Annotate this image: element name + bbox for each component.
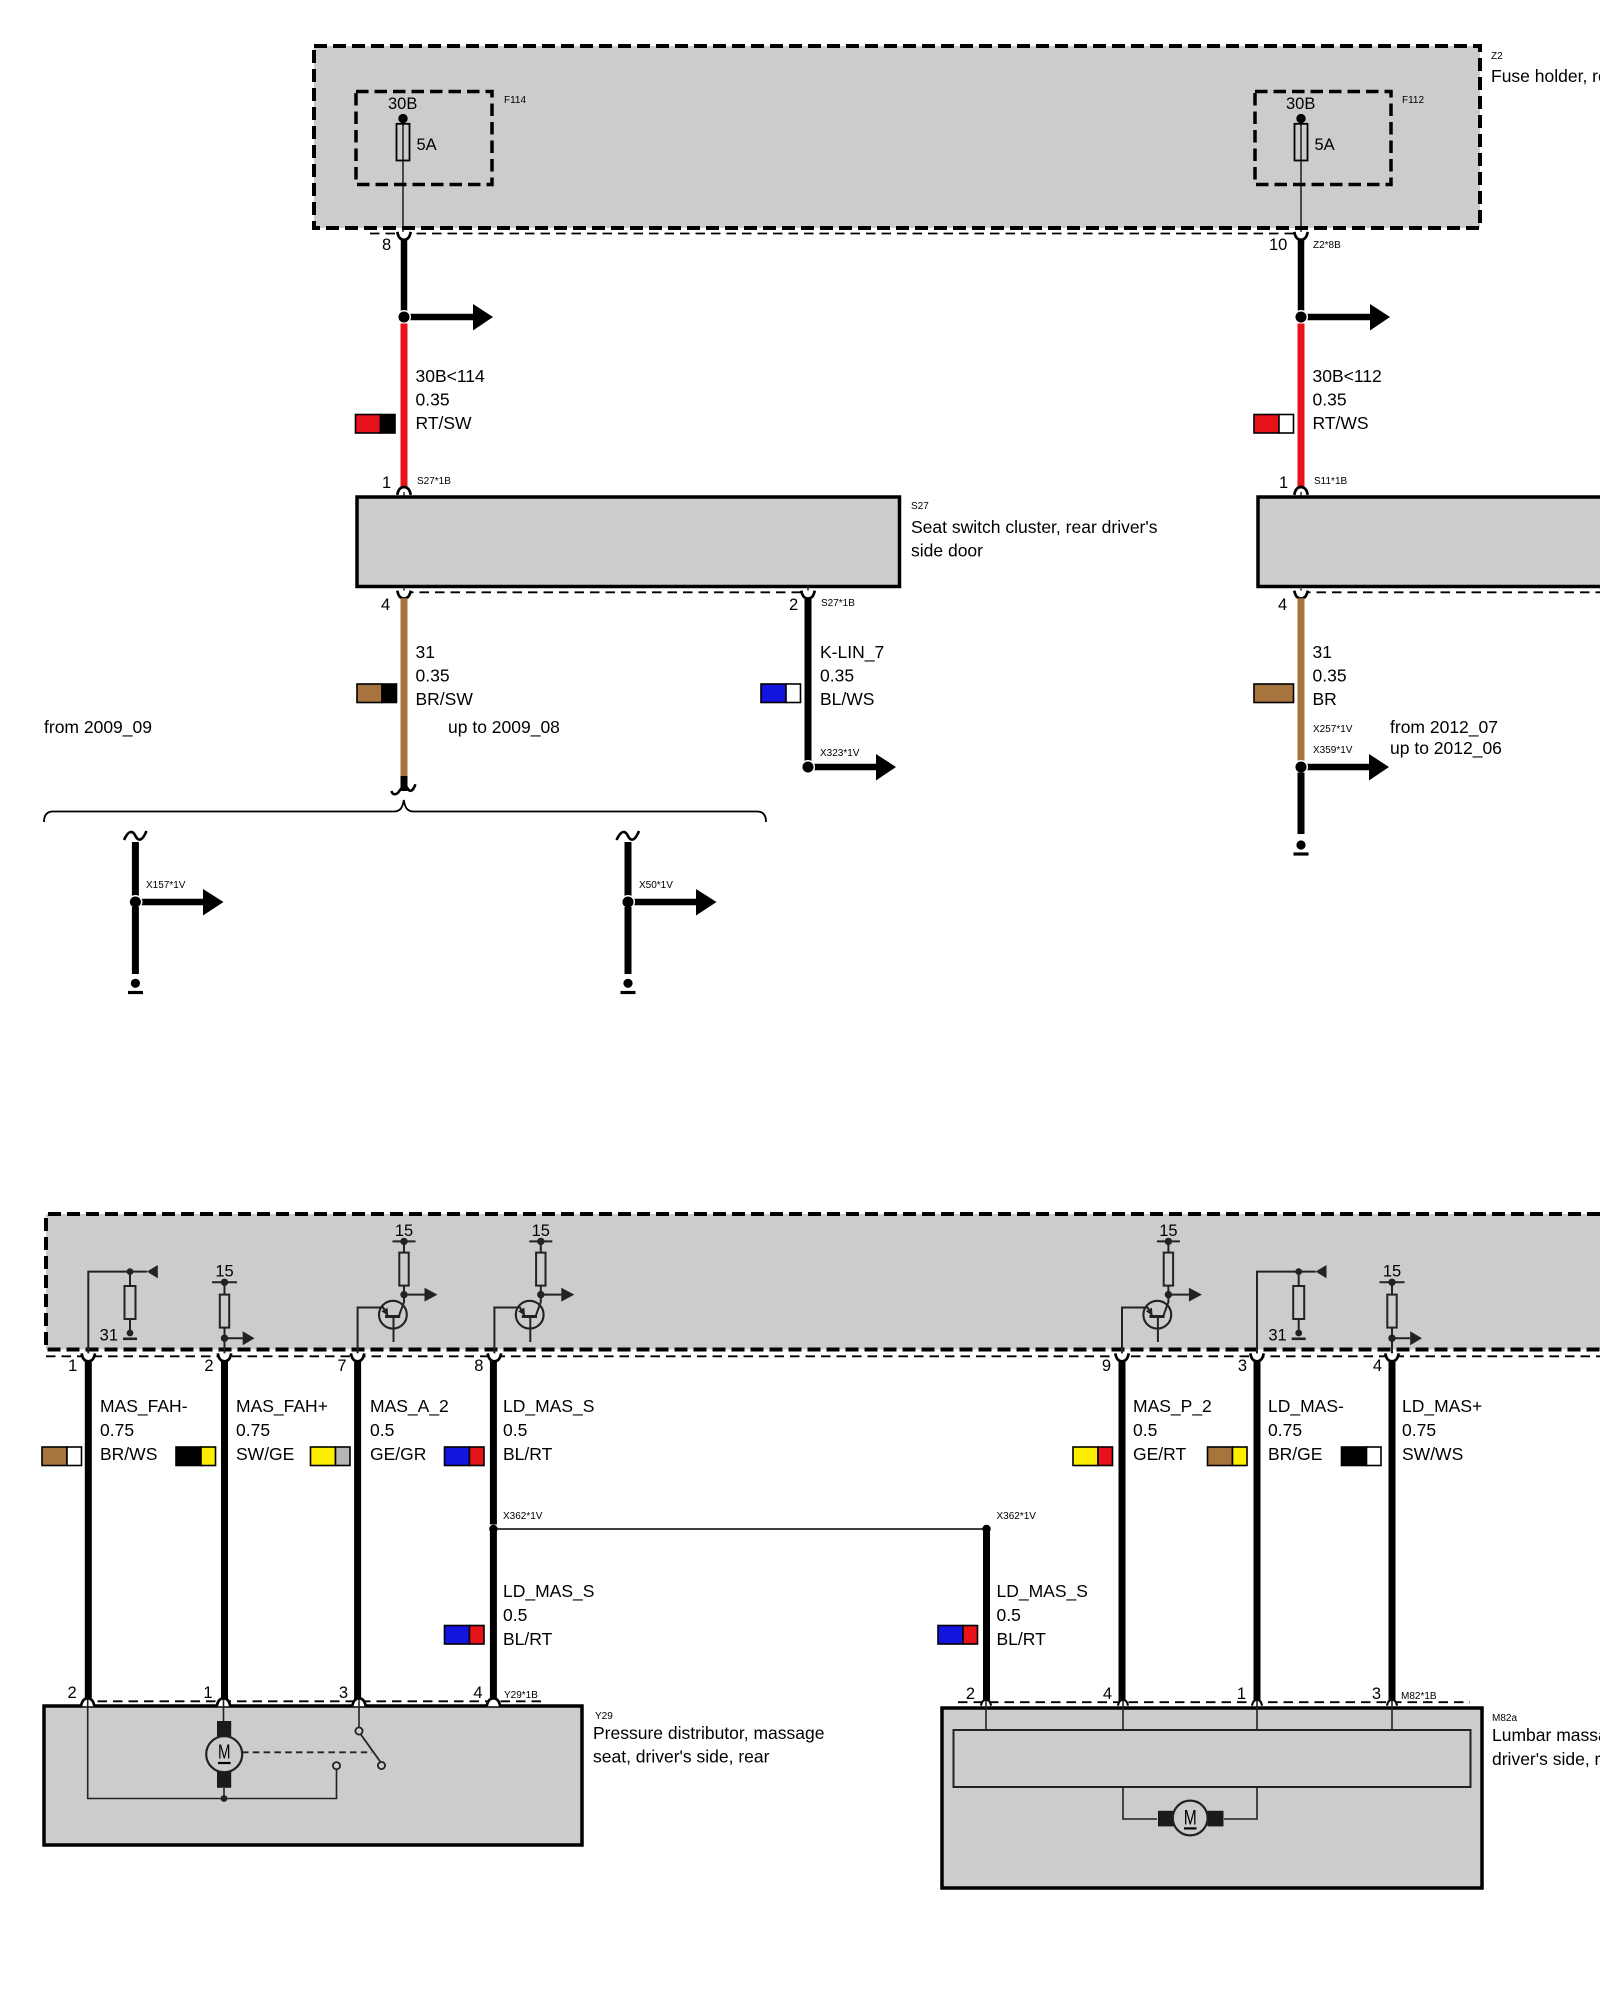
node X50*1V with arrow: [622, 880, 717, 916]
svg-text:8: 8: [382, 236, 391, 254]
fuse F114: [388, 95, 437, 234]
node junction pin10 with arrow: [1295, 304, 1390, 331]
seat switch cluster S27 box: [357, 497, 1158, 587]
Z2 connector strip dashed line: [370, 233, 1301, 235]
branch X50 squiggle: [617, 831, 640, 840]
ground right: [1294, 840, 1309, 854]
svg-text:2: 2: [966, 1685, 975, 1703]
svg-text:X323*1V: X323*1V: [820, 748, 860, 759]
wire K-LIN_7: [805, 598, 812, 762]
swatch BL/WS: [761, 684, 801, 703]
swatch RT/WS: [1254, 415, 1294, 434]
swatch BL/RT upper: [445, 1447, 485, 1466]
wire X362 link: [493, 1528, 986, 1530]
svg-text:Y29*1B: Y29*1B: [504, 1690, 538, 1701]
wire MAS_FAH+: [221, 1361, 228, 1700]
svg-text:X359*1V: X359*1V: [1313, 745, 1353, 756]
pin 4 connector M82a: [1103, 1685, 1128, 1706]
svg-text:M: M: [1184, 1807, 1197, 1830]
wire 31 brown BR/SW: [401, 598, 408, 791]
Y29 wire pin3 to switch: [358, 1700, 360, 1728]
wire branch X50 upper: [625, 842, 632, 897]
fuse F112: [1286, 95, 1335, 234]
switch lever Y29: [361, 1734, 386, 1769]
svg-text:31: 31: [1268, 1327, 1286, 1345]
pin 1 connector module: [68, 1353, 95, 1375]
M82a wire to motor left: [1123, 1787, 1157, 1819]
M82a inner block: [954, 1730, 1471, 1787]
pin 4 connector Y29: [473, 1684, 538, 1706]
pin 1 connector Y29: [203, 1684, 230, 1706]
wire MAS_P_2: [1119, 1361, 1126, 1701]
pin 8 connector Z2*8B: [382, 232, 411, 254]
pin 4 connector S27: [381, 586, 411, 614]
M82a pin lead 3: [1391, 1701, 1393, 1730]
svg-text:Z2*8B: Z2*8B: [1313, 240, 1341, 251]
swatch BR/WS: [42, 1447, 82, 1466]
node X323*1V with arrow: [802, 748, 896, 781]
swatch BR/SW: [357, 684, 397, 703]
svg-text:S27: S27: [911, 501, 929, 512]
svg-text:Z2: Z2: [1491, 51, 1503, 62]
node junction pin8 with arrow: [398, 304, 493, 331]
wire 31 brown BR right: [1298, 598, 1305, 762]
svg-text:2: 2: [68, 1684, 77, 1702]
swatch SW/WS: [1342, 1447, 1382, 1466]
M82a wire to motor right: [1224, 1787, 1257, 1819]
pin 8 connector module: [474, 1353, 501, 1375]
svg-text:15: 15: [1159, 1222, 1177, 1240]
wire LD_MAS_S lower right: [983, 1529, 990, 1701]
pin 2 connector module: [204, 1353, 231, 1375]
svg-text:4: 4: [473, 1684, 482, 1702]
svg-text:15: 15: [395, 1222, 413, 1240]
svg-text:30B: 30B: [1286, 95, 1315, 113]
pin 7 connector module: [337, 1353, 364, 1375]
node X157*1V with arrow: [129, 880, 223, 916]
svg-text:F112: F112: [1402, 95, 1424, 106]
fuse F112 box: [1255, 92, 1424, 185]
transistor at pin 8: [494, 1222, 574, 1358]
svg-text:2: 2: [204, 1357, 213, 1375]
module connector strip dashed line: [46, 1355, 1600, 1357]
M82a pin lead 4: [1122, 1701, 1124, 1730]
Y29 connector strip dashed line: [82, 1700, 541, 1702]
svg-text:4: 4: [1278, 596, 1287, 614]
node X362*1V left: [489, 1511, 543, 1533]
wire below X359: [1298, 773, 1305, 835]
M82a connector strip dashed line: [958, 1701, 1470, 1703]
swatch BR: [1254, 684, 1294, 703]
svg-text:3: 3: [1372, 1685, 1381, 1703]
pin 4 connector S11: [1278, 586, 1308, 614]
svg-text:X257*1V: X257*1V: [1313, 724, 1353, 735]
Y29 wire pin1 to motor: [223, 1700, 225, 1723]
resistor from 15 with arrow at pin 4: [1380, 1263, 1423, 1358]
pin 2 connector Y29: [68, 1684, 95, 1706]
node X362*1V right: [982, 1511, 1036, 1533]
resistor to ground 31 at pin 3: [1257, 1265, 1327, 1358]
swatch BR/GE: [1208, 1447, 1248, 1466]
wire break squiggle: [392, 784, 416, 794]
pin 2 connector M82a: [966, 1685, 991, 1706]
pin 10 connector Z2*8B right: [1269, 232, 1341, 254]
pin 3 connector M82a: [1372, 1685, 1437, 1706]
pin 9 connector module: [1102, 1353, 1129, 1375]
svg-text:F114: F114: [504, 95, 526, 106]
motor M M82a: [1158, 1801, 1224, 1836]
svg-text:S27*1B: S27*1B: [417, 476, 451, 487]
wire LD_MAS+: [1389, 1361, 1396, 1701]
svg-text:7: 7: [337, 1357, 346, 1375]
swatch GE/RT: [1073, 1447, 1113, 1466]
lumbar massage motor M82a box: [942, 1708, 1600, 1888]
wire 30B<112 red: [1298, 324, 1305, 488]
M82a pin lead 2: [985, 1701, 987, 1730]
wire LD_MAS_S lower left: [490, 1529, 497, 1700]
svg-text:30B: 30B: [388, 95, 417, 113]
transistor at pin 7: [358, 1222, 438, 1358]
svg-text:M82*1B: M82*1B: [1401, 1691, 1437, 1702]
svg-text:X157*1V: X157*1V: [146, 880, 186, 891]
switch contact a Y29: [333, 1762, 340, 1769]
wire pin10 to junction: [1298, 240, 1305, 313]
control module box: [46, 1214, 1600, 1350]
pin 3 connector module: [1238, 1353, 1264, 1375]
svg-text:15: 15: [215, 1263, 233, 1281]
svg-text:4: 4: [1103, 1685, 1112, 1703]
swatch RT/SW: [356, 415, 396, 434]
svg-text:3: 3: [1238, 1357, 1247, 1375]
svg-text:1: 1: [68, 1357, 77, 1375]
svg-text:8: 8: [474, 1357, 483, 1375]
swatch GE/GR: [311, 1447, 351, 1466]
svg-text:Y29: Y29: [595, 1711, 613, 1722]
wire LD_MAS_S upper: [490, 1361, 497, 1525]
svg-text:31: 31: [100, 1327, 118, 1345]
branch X157 squiggle: [124, 831, 147, 840]
svg-text:up to 2009_08: up to 2009_08: [448, 717, 560, 738]
svg-text:4: 4: [1373, 1357, 1382, 1375]
svg-text:2: 2: [789, 596, 798, 614]
svg-text:from 2012_07up to 2012_06: from 2012_07up to 2012_06: [1390, 717, 1502, 759]
wire branch X157 upper: [132, 842, 139, 897]
fuse F114 box: [356, 92, 526, 185]
svg-text:15: 15: [532, 1222, 550, 1240]
swatch BL/RT lower left: [445, 1626, 485, 1645]
svg-text:1: 1: [1279, 474, 1288, 492]
S11 connector strip dashed line: [1301, 591, 1600, 593]
svg-text:X362*1V: X362*1V: [503, 1511, 543, 1522]
pressure distributor Y29 box: [44, 1706, 825, 1845]
Y29 wire pin2 to switch contact: [88, 1700, 337, 1802]
swatch BL/RT lower right: [938, 1626, 978, 1645]
pin 1 connector S27*1B: [382, 474, 451, 497]
motor M Y29: [206, 1721, 242, 1799]
svg-text:X362*1V: X362*1V: [997, 1511, 1037, 1522]
wire MAS_A_2: [354, 1361, 361, 1700]
pin 2 connector S27: [789, 586, 855, 614]
pin 1 connector M82a: [1237, 1685, 1262, 1706]
ground X50 branch: [621, 979, 636, 993]
M82a pin lead 1: [1256, 1701, 1258, 1730]
svg-text:1: 1: [203, 1684, 212, 1702]
svg-text:M82a: M82a: [1492, 1713, 1517, 1724]
transistor at pin 9: [1122, 1222, 1202, 1358]
seat switch cluster S11 box: [1258, 497, 1600, 587]
svg-text:X50*1V: X50*1V: [639, 880, 673, 891]
resistor from 15 with arrow at pin 2: [212, 1263, 255, 1358]
svg-text:4: 4: [381, 596, 390, 614]
resistor to ground 31 at pin 1: [88, 1265, 158, 1358]
switch contact b Y29: [355, 1727, 362, 1734]
svg-text:S27*1B: S27*1B: [821, 598, 855, 609]
wire branch X157 lower: [132, 907, 139, 974]
svg-text:5A: 5A: [1315, 136, 1335, 154]
pin 4 connector module: [1373, 1353, 1399, 1375]
svg-text:9: 9: [1102, 1357, 1111, 1375]
fuse holder Z2 box: [314, 46, 1480, 228]
swatch SW/GE: [176, 1447, 216, 1466]
svg-text:1: 1: [382, 474, 391, 492]
S27 connector strip dashed line: [404, 591, 808, 593]
svg-text:Fuse holder, re: Fuse holder, re: [1491, 66, 1600, 86]
wire pin8 to junction: [401, 240, 408, 313]
svg-text:M: M: [218, 1741, 231, 1764]
svg-text:1: 1: [1237, 1685, 1246, 1703]
svg-text:S11*1B: S11*1B: [1314, 476, 1348, 487]
wire MAS_FAH-: [85, 1361, 92, 1700]
mechanical link dashed Y29: [242, 1751, 372, 1753]
wire 30B<114 red: [401, 324, 408, 488]
pin 3 connector Y29: [339, 1684, 366, 1706]
svg-text:5A: 5A: [417, 136, 437, 154]
wire branch X50 lower: [625, 907, 632, 974]
wire LD_MAS-: [1254, 1361, 1261, 1701]
svg-text:10: 10: [1269, 236, 1287, 254]
svg-text:from 2009_09: from 2009_09: [44, 717, 152, 738]
svg-text:3: 3: [339, 1684, 348, 1702]
pin 1 connector S11*1B: [1279, 474, 1348, 497]
brace: [44, 800, 766, 822]
node X359*1V with arrow: [1295, 754, 1389, 781]
ground X157 branch: [128, 979, 143, 993]
svg-text:15: 15: [1383, 1263, 1401, 1281]
